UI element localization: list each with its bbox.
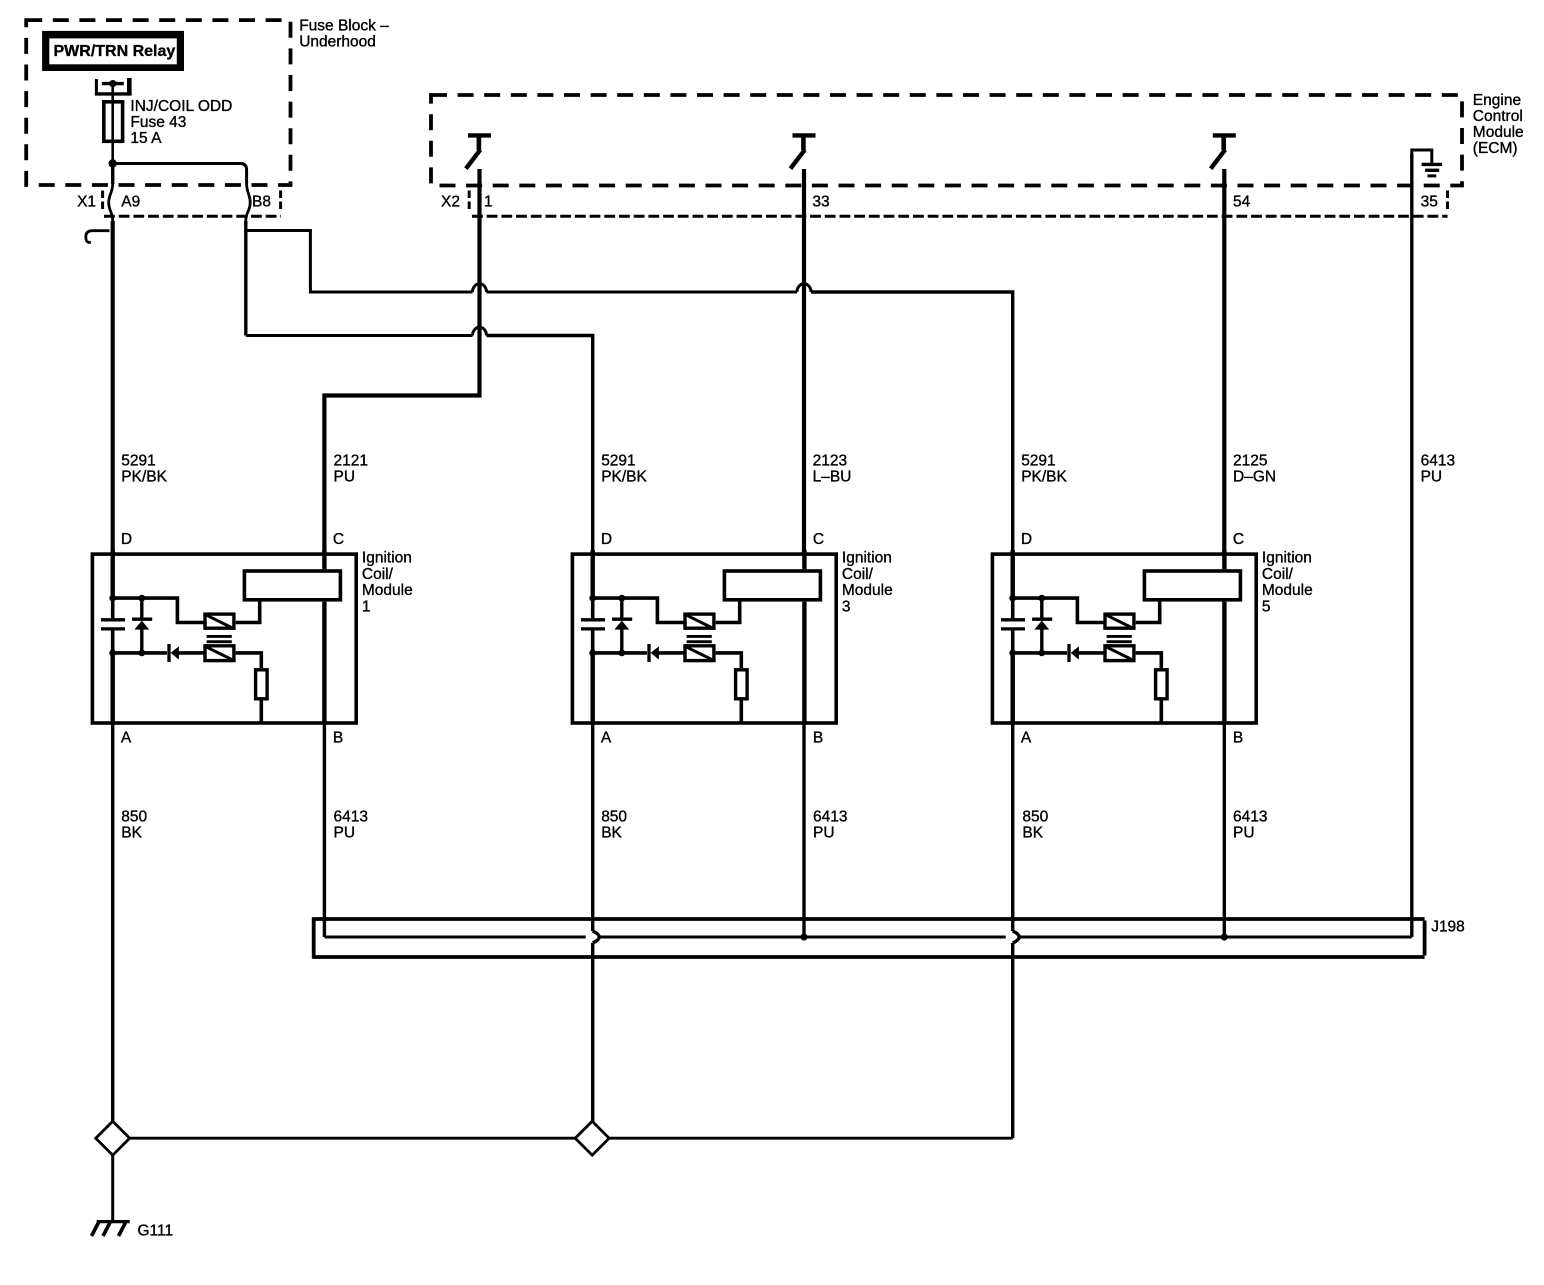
- svg-text:G111: G111: [138, 1222, 174, 1239]
- svg-text:PWR/TRN Relay: PWR/TRN Relay: [54, 43, 176, 60]
- svg-text:2123: 2123: [813, 452, 847, 469]
- svg-text:PK/BK: PK/BK: [601, 468, 647, 485]
- module 1 secondary coil winding: [205, 646, 234, 661]
- module 3 pin C to B wire through module: [802, 602, 806, 725]
- module 5 pin D wire: [1011, 550, 1015, 598]
- module 1 resistor wire to case: [259, 701, 263, 723]
- svg-text:Module: Module: [1262, 582, 1313, 599]
- connector X2 band dotted line: [472, 215, 1448, 218]
- svg-text:PU: PU: [1233, 825, 1255, 842]
- module 1 node D junction dot: [109, 595, 116, 602]
- module 3 name label: [842, 550, 893, 616]
- svg-text:Ignition: Ignition: [362, 550, 412, 567]
- svg-text:Coil/: Coil/: [1262, 566, 1294, 583]
- svg-text:C: C: [1233, 531, 1244, 548]
- svg-text:6413: 6413: [1421, 452, 1455, 469]
- wire B8 main vertical: [244, 221, 247, 336]
- module 5 junction dot at zener top: [1038, 595, 1045, 602]
- wire B8 squiggle through connector: [246, 184, 250, 221]
- module 1 lower junction dots: [109, 650, 145, 657]
- module 5 pin labels D C A B: [1021, 531, 1244, 747]
- svg-text:PU: PU: [334, 825, 356, 842]
- svg-text:BK: BK: [121, 825, 142, 842]
- svg-text:Fuse Block –: Fuse Block –: [299, 17, 389, 34]
- svg-text:BK: BK: [601, 825, 622, 842]
- module 3 capacitor C: [581, 598, 605, 653]
- engine control module dashed box: [431, 95, 1462, 186]
- ECM driver output pin 1: [466, 135, 491, 168]
- wire 6413 PU module 5 pin B to splice: [1223, 723, 1226, 937]
- svg-text:PK/BK: PK/BK: [121, 468, 167, 485]
- module 5 coil core lines: [1107, 636, 1132, 641]
- svg-text:PU: PU: [334, 468, 356, 485]
- splice J198 junction dots: [800, 933, 807, 940]
- module 3 coil core lines: [687, 636, 712, 641]
- module 3 diode D1: [649, 644, 684, 662]
- wire ECM pin 35 to splice J198: [1410, 154, 1413, 937]
- module 3 junction dot at zener top: [618, 595, 625, 602]
- svg-text:X1: X1: [77, 193, 96, 210]
- svg-text:Ignition: Ignition: [842, 550, 892, 567]
- svg-text:850: 850: [1022, 809, 1048, 826]
- module 3 wire primary coil to HV terminal: [716, 602, 740, 623]
- wire 6413 PU module 1 pin B to splice: [323, 723, 326, 937]
- svg-text:6413: 6413: [334, 809, 368, 826]
- splice diamond at module 3 ground: [575, 1121, 609, 1155]
- relay contact terminal: [95, 78, 132, 96]
- module 5 pin A wire: [1011, 653, 1015, 725]
- svg-text:5291: 5291: [1021, 452, 1055, 469]
- module 5 lower node wire: [1013, 651, 1067, 655]
- module 3 pin labels D C A B: [601, 531, 824, 747]
- module 1 name label: [362, 550, 413, 616]
- fuse block underhood dashed box: [26, 20, 290, 185]
- module 3 pin D wire: [591, 550, 595, 598]
- svg-text:D: D: [121, 531, 132, 548]
- wire junction to pin B8: [113, 164, 247, 185]
- wire ECM pin 1: [324, 169, 479, 553]
- module 1 pin C wire upper: [322, 550, 326, 569]
- module 1 primary coil winding: [205, 614, 234, 628]
- module 5 internal wire from D to primary coil: [1013, 598, 1104, 622]
- svg-text:850: 850: [601, 809, 627, 826]
- module 5 primary coil winding: [1105, 614, 1134, 628]
- svg-text:J198: J198: [1431, 918, 1465, 935]
- svg-text:B: B: [333, 729, 343, 746]
- module 1 pin D wire: [110, 550, 114, 598]
- svg-text:3: 3: [842, 598, 851, 615]
- svg-text:2121: 2121: [334, 452, 368, 469]
- module 3 wire secondary coil to resistor: [716, 653, 742, 668]
- ignition coil/module 5 box: [992, 554, 1256, 723]
- wire 850 BK module 3 pin A down: [593, 723, 600, 1122]
- svg-text:X2: X2: [441, 193, 460, 210]
- svg-text:Module: Module: [842, 582, 893, 599]
- svg-text:Ignition: Ignition: [1262, 550, 1312, 567]
- fuse 43 label: [130, 98, 232, 147]
- module 3 pin C wire upper: [802, 550, 806, 569]
- module 3 zener diode: [612, 598, 632, 653]
- module 1 capacitor C: [101, 598, 125, 653]
- module 3 lower junction dots: [589, 650, 625, 657]
- svg-text:1: 1: [362, 598, 371, 615]
- svg-text:A: A: [1021, 729, 1032, 746]
- connector X1 harness hook: [86, 231, 110, 243]
- connector X2 separators: [468, 191, 471, 211]
- svg-text:PU: PU: [813, 825, 835, 842]
- module 3 internal wire from D to primary coil: [593, 598, 684, 622]
- module 1 resistor: [256, 670, 268, 699]
- module 1 pin C to B wire through module: [322, 602, 326, 725]
- svg-text:PU: PU: [1421, 468, 1443, 485]
- svg-text:33: 33: [812, 193, 829, 210]
- connector X1 pin labels: [77, 193, 271, 210]
- svg-text:B8: B8: [252, 193, 271, 210]
- svg-text:BK: BK: [1022, 825, 1043, 842]
- ignition coil/module 1 box: [92, 554, 356, 723]
- svg-text:Fuse 43: Fuse 43: [130, 114, 186, 131]
- wire relay to fuse: [111, 84, 114, 101]
- svg-text:C: C: [813, 531, 824, 548]
- svg-text:INJ/COIL ODD: INJ/COIL ODD: [130, 98, 232, 115]
- svg-text:6413: 6413: [813, 809, 847, 826]
- svg-text:2125: 2125: [1233, 452, 1267, 469]
- svg-text:Module: Module: [362, 582, 413, 599]
- svg-text:PK/BK: PK/BK: [1021, 468, 1067, 485]
- module 3 resistor wire to case: [739, 701, 743, 723]
- svg-text:Control: Control: [1473, 108, 1523, 125]
- connector X1 band dotted line: [104, 215, 281, 218]
- module 5 pin C to B wire through module: [1222, 602, 1226, 725]
- svg-text:A9: A9: [121, 193, 140, 210]
- module 3 pin A wire: [591, 653, 595, 725]
- wire branch B8 to module 5 feed: [246, 231, 473, 293]
- module 5 diode D1: [1069, 644, 1104, 662]
- svg-text:Underhood: Underhood: [299, 33, 376, 50]
- svg-text:(ECM): (ECM): [1473, 140, 1518, 157]
- PWR/TRN Relay label box: [42, 31, 184, 71]
- wire labels lower row: [121, 809, 1267, 842]
- wire pin A9 down from junction: [111, 164, 114, 185]
- wire ECM pin 54: [1222, 169, 1226, 553]
- module 5 name label: [1262, 550, 1313, 616]
- module 3 secondary coil winding: [685, 646, 714, 661]
- module 5 resistor wire to case: [1160, 701, 1164, 723]
- svg-text:Coil/: Coil/: [842, 566, 874, 583]
- svg-text:5291: 5291: [121, 452, 155, 469]
- wire A9 squiggle through connector: [109, 184, 113, 221]
- splice diamond at module 1 ground: [96, 1121, 130, 1155]
- module 1 wire primary coil to HV terminal: [236, 602, 260, 623]
- svg-text:5291: 5291: [601, 452, 635, 469]
- wire A9 to module 1 pin D: [111, 221, 115, 553]
- ECM driver output pin 33: [790, 135, 815, 168]
- module 3 primary coil winding: [685, 614, 714, 628]
- module 5 wire primary coil to HV terminal: [1136, 602, 1160, 623]
- module 1 pin labels D C A B: [121, 531, 344, 747]
- ECM internal ground symbol pin 35: [1412, 150, 1442, 176]
- svg-text:B: B: [1233, 729, 1243, 746]
- module 5 zener diode: [1032, 598, 1052, 653]
- ground rail horizontal wire: [130, 1137, 1013, 1140]
- module 3 HV terminal block: [724, 571, 820, 600]
- svg-text:D–GN: D–GN: [1233, 468, 1276, 485]
- module 5 resistor: [1156, 670, 1168, 699]
- wire fuse through to junction: [111, 101, 114, 164]
- svg-text:Module: Module: [1473, 124, 1524, 141]
- svg-text:1: 1: [484, 193, 493, 210]
- connector X1 separators: [101, 191, 104, 211]
- ECM driver output pin 54: [1211, 135, 1236, 168]
- svg-text:A: A: [121, 729, 132, 746]
- module 1 HV terminal block: [244, 571, 340, 600]
- splice pack J198 inner bus: [324, 936, 1411, 939]
- svg-text:D: D: [601, 531, 612, 548]
- module 1 pin A wire: [110, 653, 114, 725]
- wire labels upper row: [121, 452, 1455, 485]
- engine control module label: [1473, 92, 1524, 157]
- wire 850 BK module 1 pin A down: [111, 723, 114, 1122]
- module 1 diode D1: [169, 644, 204, 662]
- svg-text:D: D: [1021, 531, 1032, 548]
- module 1 wire secondary coil to resistor: [236, 653, 262, 668]
- ignition coil/module 3 box: [572, 554, 836, 723]
- svg-text:54: 54: [1233, 193, 1251, 210]
- svg-text:B: B: [813, 729, 823, 746]
- wire diamond to ground G111: [111, 1155, 114, 1221]
- connector X2 pin labels: [441, 193, 1438, 210]
- module 1 junction dot at zener top: [138, 595, 145, 602]
- module 1 lower node wire: [113, 651, 167, 655]
- svg-text:15 A: 15 A: [130, 130, 162, 147]
- module 3 resistor: [736, 670, 748, 699]
- svg-text:6413: 6413: [1233, 809, 1267, 826]
- wire ECM pin 33: [802, 169, 806, 553]
- wire branch B8 to module 3 feed: [246, 334, 473, 337]
- module 3 node D junction dot: [589, 595, 596, 602]
- module 5 HV terminal block: [1144, 571, 1240, 600]
- module 5 wire secondary coil to resistor: [1136, 653, 1162, 668]
- module 5 pin C wire upper: [1222, 550, 1226, 569]
- module 5 capacitor C: [1001, 598, 1025, 653]
- svg-text:850: 850: [121, 809, 147, 826]
- wire 850 BK module 5 pin A down: [1013, 723, 1019, 1138]
- fuse 43 body: [104, 102, 123, 142]
- svg-text:A: A: [601, 729, 612, 746]
- svg-text:Coil/: Coil/: [362, 566, 394, 583]
- junction dot below fuse: [109, 159, 117, 167]
- module 5 lower junction dots: [1009, 650, 1045, 657]
- svg-text:5: 5: [1262, 598, 1271, 615]
- module 1 coil core lines: [207, 636, 232, 641]
- svg-text:Engine: Engine: [1473, 92, 1521, 109]
- module 1 zener diode: [132, 598, 152, 653]
- module 5 secondary coil winding: [1105, 646, 1134, 661]
- svg-text:L–BU: L–BU: [813, 468, 852, 485]
- splice pack J198 outer shell: [314, 917, 1425, 958]
- svg-text:35: 35: [1421, 193, 1438, 210]
- fuse block label: [299, 17, 389, 50]
- svg-text:C: C: [333, 531, 344, 548]
- module 3 lower node wire: [593, 651, 647, 655]
- ground symbol G111: [92, 1222, 130, 1236]
- module 5 node D junction dot: [1009, 595, 1016, 602]
- module 1 internal wire from D to primary coil: [113, 598, 204, 622]
- wire 6413 PU module 3 pin B to splice: [802, 723, 805, 937]
